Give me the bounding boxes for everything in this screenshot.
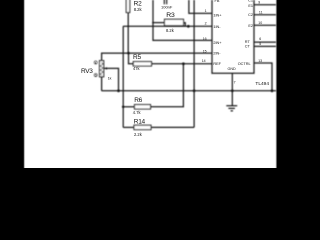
junction dot R2/R5/pin15 — [127, 52, 130, 55]
svg-text:C2: C2 — [248, 13, 253, 17]
potentiometer RV3 body — [100, 61, 104, 77]
wire R3 left lead — [153, 22, 165, 24]
wire R6 right lead up to REF — [151, 64, 184, 107]
svg-text:2.2k: 2.2k — [134, 132, 143, 137]
RV3 pin circle 3 — [94, 74, 97, 77]
resistor R6 body — [135, 105, 151, 109]
svg-text:GND: GND — [227, 67, 236, 71]
IC U1 box TL494 — [212, 0, 254, 73]
wire RV3 top lead — [101, 53, 103, 61]
wire pin5 CT stub — [254, 45, 277, 47]
svg-text:FB: FB — [215, 0, 220, 3]
junction dot R6 left/vertical — [122, 106, 125, 109]
svg-text:15: 15 — [203, 49, 207, 53]
wire pin11 stub — [254, 14, 277, 16]
resistor R5 body — [133, 62, 151, 66]
resistor R2 lead — [127, 13, 129, 54]
junction dot pin13/rail — [271, 89, 274, 92]
svg-text:2IN-: 2IN- — [213, 51, 221, 55]
wire R14 left lead — [123, 126, 134, 128]
wire pin2 1IN- horizontal — [123, 25, 212, 27]
svg-text:2: 2 — [205, 22, 207, 26]
svg-text:1k: 1k — [108, 76, 112, 80]
junction dot R6/REF — [182, 62, 185, 65]
svg-text:1IN+: 1IN+ — [213, 14, 222, 18]
svg-text:8.2k: 8.2k — [166, 28, 175, 33]
wire pin9 stub — [254, 4, 277, 6]
svg-text:47k: 47k — [133, 66, 141, 71]
svg-text:4.7k: 4.7k — [133, 110, 142, 115]
svg-text:1: 1 — [205, 9, 207, 13]
wire vertical feedback node — [122, 26, 124, 127]
resistor R3 body — [165, 19, 184, 25]
junction dot R3 left/vertical — [152, 22, 154, 24]
svg-text:CT: CT — [245, 44, 251, 48]
svg-text:RV3: RV3 — [81, 68, 93, 75]
junction dot wiper/rail — [117, 89, 120, 92]
junction dot gnd pin7/rail — [231, 89, 234, 92]
black bar right — [277, 0, 300, 168]
black bar left — [0, 0, 24, 168]
junction dot R3/pin2 — [187, 25, 190, 28]
svg-text:5: 5 — [259, 42, 261, 46]
svg-text:TL494: TL494 — [255, 81, 269, 87]
wire R5 left lead — [129, 53, 134, 64]
resistor R14 body — [134, 125, 151, 129]
resistor R2 body — [126, 0, 130, 13]
wire pin15 2IN- horizontal — [102, 52, 212, 54]
wire pin6 RT stub — [254, 41, 277, 43]
potentiometer RV3 wiper arrow — [104, 67, 107, 70]
wire pin1 1IN+ — [189, 0, 212, 13]
wire IC pin7 down — [231, 73, 233, 105]
svg-text:6: 6 — [259, 37, 261, 41]
svg-text:C1: C1 — [248, 0, 253, 3]
svg-text:E2: E2 — [248, 24, 253, 28]
svg-text:8.2k: 8.2k — [134, 7, 143, 12]
page background — [0, 0, 300, 168]
wire pin10 stub — [254, 24, 277, 26]
svg-text:E1: E1 — [248, 4, 253, 8]
wire R6 left lead — [123, 106, 134, 108]
wire pin16 2IN+ node — [153, 0, 212, 40]
svg-text:2IN+: 2IN+ — [213, 41, 222, 45]
svg-text:100nF: 100nF — [161, 5, 173, 10]
wire R3 right hook — [184, 23, 186, 27]
svg-text:1IN-: 1IN- — [213, 25, 221, 29]
wire R5 to REF pin14 — [152, 63, 213, 65]
wire long vertical to R14 — [193, 0, 195, 127]
wire RV3 wiper to rail — [104, 68, 119, 90]
svg-text:11: 11 — [259, 10, 263, 14]
svg-text:REF: REF — [213, 62, 221, 66]
svg-text:OCTRL: OCTRL — [238, 62, 251, 66]
svg-text:9: 9 — [258, 0, 260, 4]
wire pin13 OCTRL to rail — [254, 63, 272, 91]
svg-text:14: 14 — [202, 59, 206, 63]
svg-text:R5: R5 — [133, 54, 141, 61]
svg-text:7: 7 — [234, 80, 236, 84]
svg-text:R3: R3 — [166, 12, 175, 19]
ground symbol — [226, 106, 237, 111]
svg-text:R6: R6 — [134, 97, 142, 104]
svg-text:10: 10 — [258, 21, 262, 25]
wire RV3 bottom lead — [101, 77, 103, 91]
wire ground rail — [102, 90, 277, 92]
svg-text:13: 13 — [258, 59, 262, 63]
capacitor C 100nF plates — [164, 0, 166, 4]
svg-text:R14: R14 — [134, 119, 146, 126]
svg-text:16: 16 — [203, 37, 207, 41]
wire R14 right lead — [151, 126, 194, 128]
RV3 pin circle 1 — [94, 61, 97, 64]
junction dot vertical/rail — [193, 89, 196, 92]
